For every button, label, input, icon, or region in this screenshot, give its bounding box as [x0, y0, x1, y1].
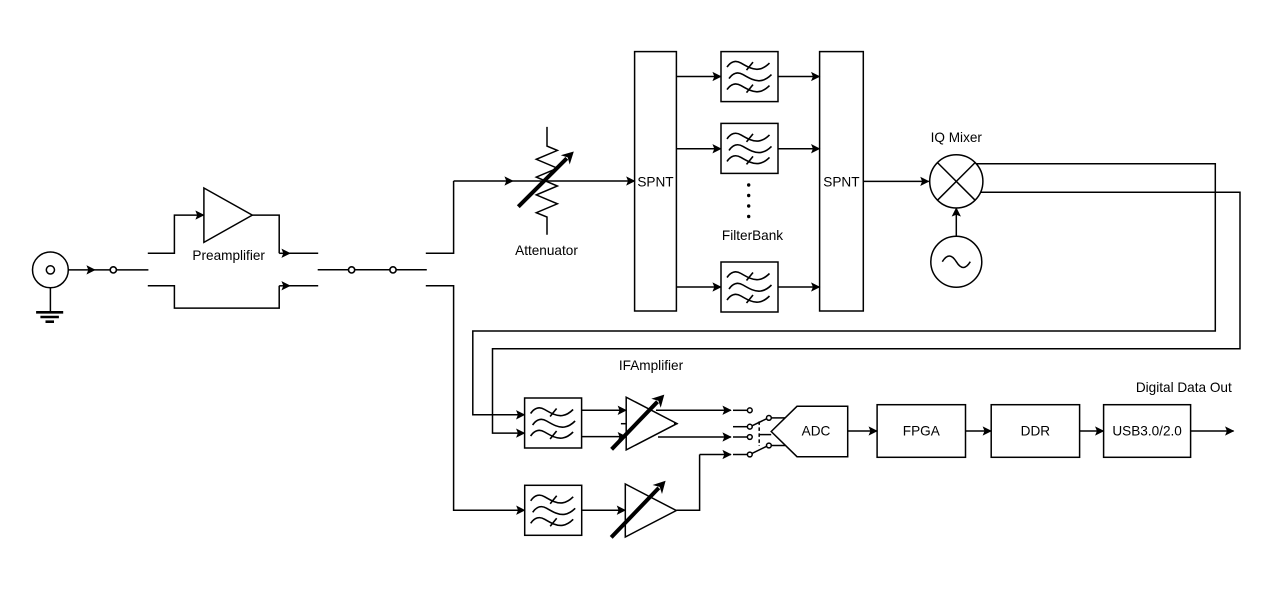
DDR block: [991, 405, 1079, 458]
wire attenuator line: [454, 180, 635, 182]
wire digital out: [1191, 430, 1234, 432]
wire SPNT1 to filter3: [676, 286, 721, 288]
switch contact row2: [747, 424, 752, 429]
wire input with arrow: [68, 269, 148, 271]
wire IF filter1 out upper: [581, 409, 626, 411]
wire ADC to FPGA: [848, 430, 877, 432]
wire LO to mixer: [955, 208, 957, 236]
wire DDR to USB: [1080, 430, 1104, 432]
filter IF2: [525, 485, 582, 535]
svg-text:FPGA: FPGA: [903, 424, 941, 439]
amplifier A1: [612, 395, 677, 450]
wire IF filter2 to amp2: [582, 509, 625, 511]
wire gang to ADC tip: [759, 434, 771, 436]
mixer U1: [930, 155, 983, 208]
SPNT switch 1: [635, 52, 677, 311]
SPNT switch 2: [820, 52, 864, 311]
FPGA block: [877, 405, 965, 458]
svg-text:IQ Mixer: IQ Mixer: [931, 130, 983, 145]
svg-text:Preamplifier: Preamplifier: [192, 248, 265, 263]
switch gang dashed link: [758, 421, 760, 446]
svg-text:Attenuator: Attenuator: [515, 243, 578, 258]
svg-text:SPNT: SPNT: [823, 175, 859, 190]
wire upper stub to attenuator: [426, 181, 454, 253]
filter F2: [721, 123, 778, 173]
svg-text:Digital Data Out: Digital Data Out: [1136, 380, 1232, 395]
wire IF filter1 out lower: [581, 436, 626, 438]
svg-text:ADC: ADC: [802, 424, 831, 439]
wire preamp bypass path: [148, 286, 318, 308]
switch throw upper: [752, 419, 767, 426]
wire filter3 to SPNT2: [778, 286, 819, 288]
svg-text:DDR: DDR: [1021, 424, 1051, 439]
switch contact S2: [349, 267, 355, 273]
wire amp1 out lower: [658, 436, 747, 438]
svg-text:USB3.0/2.0: USB3.0/2.0: [1112, 424, 1182, 439]
wire preamp upper input: [148, 215, 204, 253]
switch contact S3: [390, 267, 396, 273]
wire filter1 to SPNT2: [778, 76, 819, 78]
wire preamp output: [252, 215, 318, 253]
svg-text:IFAmplifier: IFAmplifier: [619, 358, 684, 373]
switch pole P2: [767, 443, 772, 448]
connector J1: [33, 252, 69, 288]
oscillator LO: [931, 236, 982, 287]
wire SPNT1 to filter2: [676, 148, 721, 150]
wire pole1 to ADC: [771, 417, 785, 419]
wire bypass to IF filter2: [426, 286, 525, 510]
switch contact row3: [747, 435, 752, 440]
wire mixer I output return: [473, 164, 1216, 415]
svg-text:SPNT: SPNT: [637, 175, 673, 190]
switch contact row1: [747, 408, 752, 413]
ellipsis dots: [747, 183, 750, 218]
USB block: [1104, 405, 1191, 458]
resistor attenuator: [518, 127, 574, 235]
wire FPGA to DDR: [966, 430, 992, 432]
wire filter2 to SPNT2: [778, 148, 819, 150]
svg-text:FilterBank: FilterBank: [722, 228, 783, 243]
filter F3: [721, 262, 778, 312]
wire amp2 out riser: [676, 455, 747, 511]
switch contact S1: [110, 267, 116, 273]
ground: [36, 288, 63, 322]
filter IF1: [525, 398, 582, 448]
wire SPNT1 to filter1: [676, 76, 721, 78]
wire mid section: [318, 269, 427, 271]
wire SPNT2 to mixer: [863, 180, 929, 182]
wire amp1 out upper: [656, 409, 747, 411]
op-amp preamplifier: [204, 188, 252, 242]
ADC block: [771, 406, 848, 456]
wire mixer Q output return: [493, 192, 1241, 433]
switch contact row4: [747, 452, 752, 457]
wire amp1 mid stub left: [621, 423, 626, 425]
wire pole2 to ADC: [771, 445, 785, 447]
filter F1: [721, 52, 778, 102]
switch pole P1: [767, 416, 772, 421]
switch throw lower: [752, 446, 766, 453]
wire amp1 mid stub tip: [674, 423, 678, 425]
amplifier A2: [611, 481, 676, 538]
switch contact row2 stub: [733, 426, 747, 428]
